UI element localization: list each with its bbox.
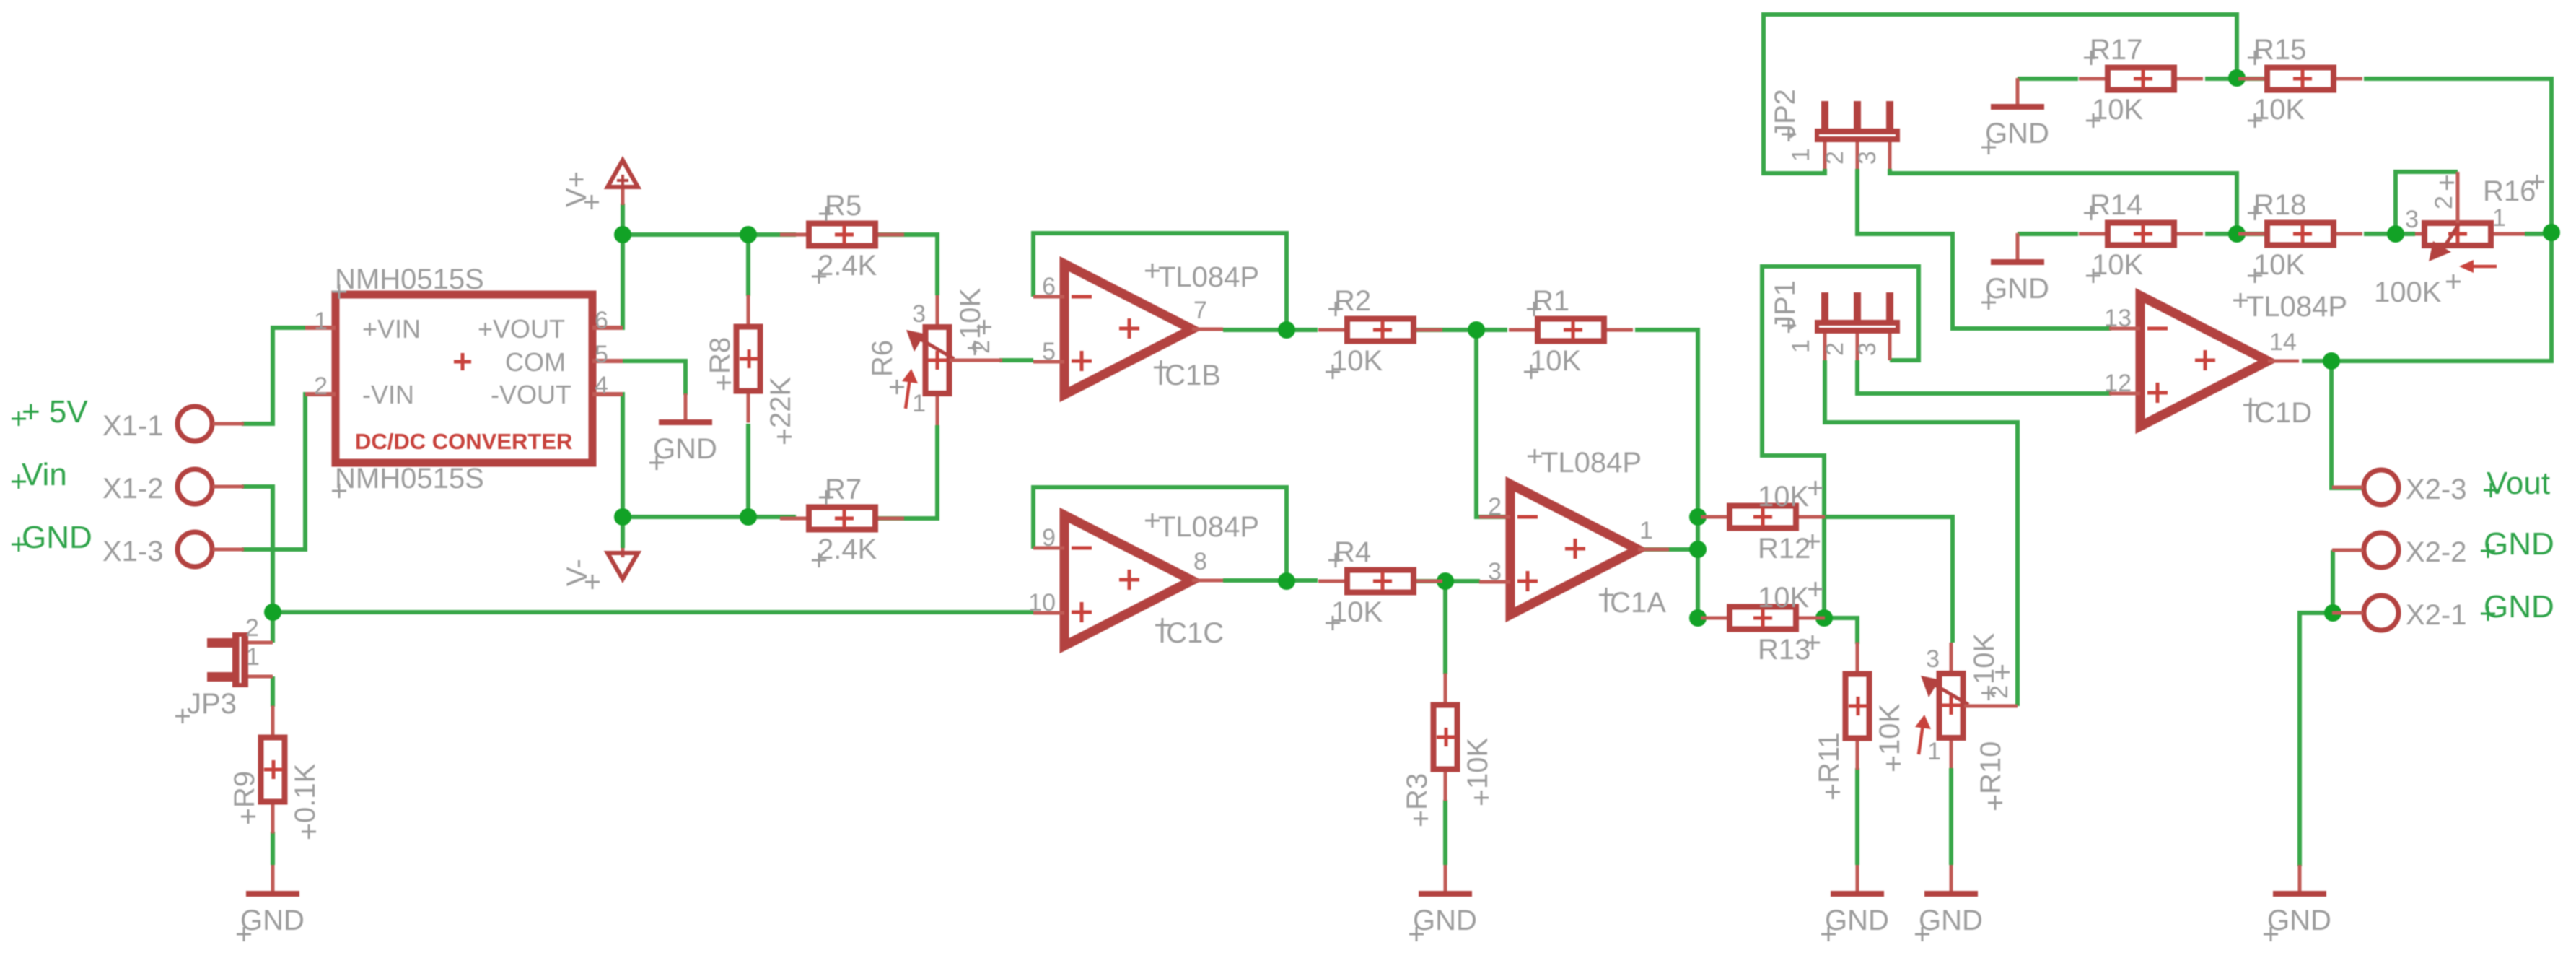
svg-text:R3: R3	[1401, 773, 1433, 810]
svg-text:10K: 10K	[2092, 94, 2143, 126]
wire JP2 pin1 to R17-R15 node	[1764, 14, 2237, 173]
connector pad X1-1	[102, 406, 244, 442]
svg-text:R11: R11	[1813, 733, 1845, 783]
wire IC1B out to R2	[1223, 328, 1318, 332]
power symbol V+	[561, 160, 638, 209]
svg-text:7: 7	[1193, 297, 1207, 324]
svg-text:1: 1	[1927, 738, 1941, 765]
svg-text:R10: R10	[1975, 741, 2007, 794]
wire R10 to GND	[1949, 768, 1953, 865]
wire R8 bottom to V- rail	[746, 424, 750, 517]
ground (X2)	[2264, 865, 2331, 941]
label Vin	[12, 457, 67, 492]
resistor R17	[2079, 34, 2203, 128]
wire R14-R18 node	[2205, 232, 2267, 236]
wire JP2 pin3 to R14-R18 node	[1890, 169, 2237, 234]
junction R12 left	[1689, 508, 1707, 526]
svg-text:13: 13	[2104, 305, 2132, 332]
value 10K	[2248, 113, 2262, 128]
svg-text:JP1: JP1	[1769, 280, 1801, 330]
svg-text:3: 3	[912, 300, 926, 328]
resistor R11	[1813, 643, 1906, 800]
svg-text:Vin: Vin	[22, 457, 67, 492]
svg-text:9: 9	[1042, 524, 1056, 552]
svg-text:GND: GND	[2267, 905, 2331, 936]
wire IC1C feedback	[1033, 487, 1287, 581]
svg-text:1: 1	[1787, 148, 1815, 162]
label IC1A	[1599, 588, 1613, 602]
label GND out2	[2481, 526, 2554, 562]
wire JP3 pin1 to R9	[271, 676, 275, 707]
op-amp IC1C (U1C)	[1028, 511, 1259, 649]
svg-text:R13: R13	[1758, 634, 1810, 666]
svg-text:TL084P: TL084P	[1541, 447, 1642, 479]
wire R4 node to R3	[1443, 581, 1447, 674]
junction Vin bus	[264, 604, 281, 621]
svg-text:10K: 10K	[1758, 481, 1809, 513]
junction V+ rail	[614, 226, 631, 243]
svg-text:GND: GND	[22, 520, 92, 555]
svg-text:IC1C: IC1C	[1158, 617, 1224, 649]
wire V+ to NMH pin6	[592, 235, 623, 328]
svg-text:2: 2	[314, 373, 328, 400]
junction R17-R15	[2228, 69, 2246, 87]
svg-text:X1-1: X1-1	[102, 410, 164, 442]
junction R13 left	[1689, 609, 1707, 627]
trimmer R10 10K	[1915, 633, 2018, 810]
wire X1-1 to +VIN	[242, 328, 336, 424]
svg-text:3: 3	[2405, 206, 2419, 233]
svg-text:10K: 10K	[1331, 345, 1383, 377]
svg-text:5: 5	[1042, 338, 1056, 365]
svg-text:-VOUT: -VOUT	[491, 380, 571, 409]
label R18	[2248, 206, 2262, 220]
value 10K	[2086, 113, 2100, 128]
svg-text:R14: R14	[2090, 189, 2142, 221]
ground (R9)	[237, 865, 305, 941]
wire to JP3 pin2	[271, 612, 275, 643]
svg-text:2: 2	[1821, 151, 1849, 165]
resistor R5	[780, 190, 904, 284]
svg-text:X2-2: X2-2	[2406, 536, 2467, 568]
svg-text:2.4K: 2.4K	[818, 250, 877, 282]
label +5V	[12, 394, 88, 430]
connector pad X1-2	[102, 469, 244, 505]
junction X2-1	[2324, 604, 2341, 622]
svg-text:TL084P: TL084P	[1158, 511, 1259, 543]
svg-text:JP3: JP3	[187, 688, 237, 720]
jumper header JP1	[1769, 280, 1900, 360]
svg-text:10K: 10K	[2253, 94, 2305, 126]
junction IC1B out	[1278, 321, 1295, 339]
label IC1C	[1155, 618, 1170, 632]
svg-text:10K: 10K	[1331, 596, 1383, 628]
svg-text:TL084P: TL084P	[1158, 261, 1259, 293]
resistor R12	[1701, 481, 1825, 565]
wire JP2 pin2 to IC1D pin13	[1857, 169, 2111, 328]
svg-text:GND: GND	[2484, 526, 2554, 562]
svg-text:10K: 10K	[1462, 738, 1494, 789]
svg-text:GND: GND	[1919, 905, 1983, 936]
resistor R8	[704, 295, 797, 445]
wire X1-2 down	[242, 487, 273, 612]
junction R4-R3	[1437, 572, 1454, 590]
resistor R2	[1318, 285, 1442, 379]
ground (R14)	[1981, 233, 2049, 310]
op-amp IC1D (U1D)	[2104, 291, 2347, 429]
op-amp IC1A (U1A)	[1479, 447, 1669, 619]
wire R6 wiper to IC1B pin5	[999, 358, 1033, 362]
svg-text:+ 5V: + 5V	[22, 394, 88, 430]
svg-text:X1-2: X1-2	[102, 473, 164, 505]
value 10K	[1524, 365, 1538, 379]
value 10K	[1326, 365, 1340, 379]
wire X2-2 to X2-1 node	[2331, 550, 2335, 613]
connector pad X2-3	[2332, 470, 2467, 505]
svg-text:10K: 10K	[2092, 249, 2143, 281]
wire R17-R15 node	[2205, 77, 2267, 81]
wire V+ to R8 top	[746, 235, 750, 296]
wire X1-3 to -VIN	[242, 394, 336, 549]
svg-text:GND: GND	[2484, 589, 2554, 624]
svg-text:JP2: JP2	[1769, 89, 1801, 139]
svg-text:R18: R18	[2253, 189, 2306, 221]
value TL084P	[1528, 449, 1542, 463]
svg-text:R4: R4	[1334, 536, 1371, 568]
svg-text:R9: R9	[229, 771, 260, 808]
trimmer R16 100K	[2374, 172, 2544, 308]
svg-text:3: 3	[1854, 342, 1881, 356]
svg-text:X2-3: X2-3	[2406, 474, 2467, 505]
svg-text:10K: 10K	[1758, 582, 1809, 614]
svg-text:+VIN: +VIN	[362, 314, 421, 344]
svg-text:4: 4	[595, 372, 608, 399]
junction R16 pin1 loop	[2543, 224, 2560, 241]
svg-text:R2: R2	[1334, 285, 1371, 317]
wire X2-1 node to GND	[2300, 613, 2333, 866]
wire R18 to R16 pin3	[2364, 232, 2415, 236]
connector pad X2-2	[2332, 533, 2467, 568]
ground (R11)	[1821, 865, 1889, 941]
wire Vin bus to IC1C pin10	[273, 610, 1033, 614]
value TL084P	[1145, 264, 1160, 278]
junction IC1A out	[1689, 541, 1707, 558]
svg-text:1: 1	[314, 308, 328, 335]
svg-text:10: 10	[1028, 589, 1056, 617]
power symbol V-	[561, 548, 638, 589]
ground (R10)	[1915, 865, 1983, 941]
svg-text:0.1K: 0.1K	[289, 763, 321, 823]
value 10K	[1326, 616, 1340, 630]
svg-text:3: 3	[1488, 558, 1502, 585]
svg-text:R12: R12	[1758, 533, 1810, 565]
wire IC1C out to R4	[1223, 578, 1318, 583]
svg-text:5: 5	[595, 341, 608, 368]
svg-text:GND: GND	[1825, 905, 1889, 936]
wire GND to R14	[2018, 232, 2078, 236]
label Vout	[2484, 466, 2550, 501]
label GND out1	[2481, 589, 2554, 624]
svg-text:2: 2	[245, 614, 259, 642]
wire R12 right to R10 pin3	[1824, 517, 1953, 643]
op-amp IC1B (U1B)	[1033, 261, 1259, 395]
junction R13 right	[1815, 609, 1833, 627]
svg-text:10K: 10K	[1530, 345, 1581, 377]
svg-text:R6: R6	[867, 340, 898, 377]
ground (COM)	[649, 393, 717, 470]
junction R2-R1	[1468, 321, 1485, 339]
label R7	[819, 490, 833, 505]
resistor R9	[229, 706, 321, 840]
svg-text:2.4K: 2.4K	[818, 534, 877, 565]
svg-text:R16: R16	[2483, 175, 2536, 207]
value TL084P	[1145, 513, 1160, 528]
svg-text:2: 2	[1821, 342, 1849, 356]
svg-text:R5: R5	[825, 190, 862, 222]
label R2	[1328, 302, 1343, 316]
svg-text:X2-1: X2-1	[2406, 599, 2467, 631]
trimmer R6 10K	[867, 288, 1002, 425]
wire R13 right to R11	[1824, 618, 1857, 644]
wire R3 to GND	[1443, 800, 1447, 865]
svg-text:3: 3	[1926, 645, 1940, 673]
wire R1 right to output node	[1635, 330, 1698, 618]
connector pad X1-3	[102, 532, 244, 567]
svg-text:1: 1	[2492, 204, 2506, 232]
resistor R7	[780, 474, 904, 567]
label R15	[2248, 51, 2262, 65]
svg-text:+VOUT: +VOUT	[478, 314, 565, 344]
svg-text:GND: GND	[240, 905, 305, 936]
svg-text:R1: R1	[1533, 285, 1569, 317]
wire R9 to GND	[271, 832, 275, 865]
value 2.4K	[812, 553, 826, 567]
svg-text:Vout: Vout	[2487, 466, 2550, 501]
wire V- rail to R7	[623, 515, 796, 519]
svg-text:1: 1	[1787, 339, 1815, 353]
wire IC1D out to X2-3	[2331, 361, 2363, 488]
ground (R17)	[1981, 78, 2049, 154]
svg-text:GND: GND	[1413, 905, 1477, 936]
wire IC1B feedback	[1033, 233, 1287, 330]
wire R7 to R6 pin1	[875, 425, 937, 518]
value 10K	[2086, 269, 2100, 283]
svg-text:R8: R8	[704, 337, 736, 374]
junction V- rail	[614, 508, 631, 526]
svg-text:1: 1	[1639, 517, 1653, 544]
junction IC1C out	[1278, 572, 1295, 590]
svg-text:GND: GND	[1985, 273, 2049, 305]
svg-text:X1-3: X1-3	[102, 536, 164, 567]
resistor R13	[1701, 582, 1825, 666]
svg-text:100K: 100K	[2374, 276, 2442, 308]
svg-text:12: 12	[2104, 370, 2132, 397]
resistor R1	[1509, 285, 1633, 379]
wire R5 to R6 pin3	[875, 235, 937, 295]
wire node to IC1A pin2	[1476, 330, 1510, 517]
wire R2 to R1 node	[1412, 328, 1507, 332]
jumper header JP2	[1769, 89, 1900, 169]
svg-text:2: 2	[1488, 493, 1502, 521]
svg-text:10K: 10K	[2253, 249, 2305, 281]
svg-text:NMH0515S: NMH0515S	[335, 264, 484, 295]
junction R18-R16	[2387, 225, 2404, 243]
wire R16 pin1 to loop	[2525, 232, 2551, 236]
svg-text:22K: 22K	[765, 377, 797, 428]
DC/DC converter NMH0515S	[305, 264, 623, 498]
ground (R3)	[1409, 865, 1477, 941]
svg-text:1: 1	[246, 643, 260, 671]
svg-text:10K: 10K	[1874, 704, 1906, 755]
label R4	[1328, 553, 1343, 567]
svg-text:NMH0515S: NMH0515S	[335, 463, 484, 495]
svg-text:R15: R15	[2253, 34, 2306, 66]
svg-text:TL084P: TL084P	[2246, 291, 2347, 323]
wire R11 to GND	[1855, 768, 1859, 865]
wire IC1A output	[1638, 547, 1698, 552]
svg-text:IC1B: IC1B	[1157, 360, 1221, 391]
junction IC1D out	[2323, 352, 2340, 370]
svg-text:10K: 10K	[955, 288, 986, 339]
resistor R18	[2238, 189, 2362, 283]
svg-text:R7: R7	[825, 474, 862, 505]
value 2.4K	[812, 269, 826, 284]
svg-text:3: 3	[1854, 151, 1881, 165]
svg-text:10K: 10K	[1968, 633, 2000, 684]
value 10K	[2248, 269, 2262, 283]
svg-text:-VIN: -VIN	[362, 380, 414, 409]
wire V+ rail	[623, 204, 796, 235]
label GND in	[12, 520, 92, 555]
wire R4 to IC1A pin3	[1412, 579, 1480, 583]
label IC1B	[1154, 360, 1168, 375]
label R1	[1527, 302, 1541, 316]
svg-text:IC1A: IC1A	[1602, 587, 1666, 619]
label R17	[2084, 51, 2098, 65]
wire JP1 pin2 to IC1D pin12	[1857, 360, 2111, 393]
wire R15 right loop to IC1D out	[2302, 79, 2551, 361]
svg-text:R17: R17	[2090, 34, 2142, 66]
svg-text:1: 1	[912, 390, 926, 417]
label IC1D	[2243, 398, 2258, 412]
svg-text:2: 2	[2430, 196, 2458, 209]
label R14	[2084, 206, 2098, 220]
svg-text:COM: COM	[505, 347, 566, 377]
svg-text:14: 14	[2269, 328, 2297, 356]
svg-text:IC1D: IC1D	[2246, 397, 2312, 429]
wire JP1 pin3 loop	[1762, 266, 1919, 618]
wire R16 wiper tie	[2396, 172, 2458, 234]
resistor R4	[1318, 536, 1442, 630]
wire COM to GND	[592, 361, 685, 395]
wire R10 wiper to JP1 pin1	[1825, 360, 2018, 706]
value TL084P	[2233, 293, 2248, 308]
wire -VOUT to V- rail	[592, 394, 623, 548]
junction R14-R18	[2228, 225, 2246, 243]
resistor R14	[2079, 189, 2203, 283]
label R5	[819, 206, 833, 221]
svg-text:DC/DC CONVERTER: DC/DC CONVERTER	[355, 429, 572, 454]
connector pad X2-1	[2332, 596, 2467, 631]
svg-text:8: 8	[1193, 548, 1207, 575]
junction V+ R8	[740, 226, 757, 243]
svg-text:6: 6	[1042, 273, 1056, 300]
jumper JP3	[175, 614, 273, 723]
svg-text:GND: GND	[653, 433, 717, 465]
junction V- R8	[740, 508, 757, 526]
svg-text:GND: GND	[1985, 118, 2049, 149]
resistor R15	[2238, 34, 2362, 128]
wire GND to R17	[2018, 77, 2078, 81]
svg-text:6: 6	[595, 307, 608, 334]
resistor R3	[1401, 674, 1494, 827]
